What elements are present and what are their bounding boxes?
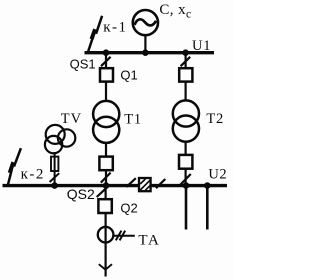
node: U1 right junction bbox=[182, 49, 189, 56]
transformer T2 bbox=[173, 100, 199, 126]
outgoing arrow at bottom of TA feeder bbox=[99, 264, 112, 269]
current transformer TA circle bbox=[98, 227, 114, 243]
wire T2 to LV breaker bbox=[185, 142, 187, 155]
svg-text:U2: U2 bbox=[208, 167, 227, 183]
wire breaker to T2 bbox=[185, 82, 187, 101]
disconnector QS1 slash bbox=[101, 57, 111, 66]
wire U1 to right breaker bbox=[185, 53, 187, 69]
svg-text:T1: T1 bbox=[124, 111, 142, 127]
short-circuit bolt k-1 bbox=[88, 16, 102, 52]
wire U1 to Q1 bbox=[105, 53, 107, 69]
node: U2 right junction 1 bbox=[183, 182, 190, 189]
wire LV breaker to bus U2 bbox=[105, 170, 107, 185]
svg-text:C, xc: C, xc bbox=[159, 2, 191, 20]
transformer T1 bbox=[93, 101, 119, 127]
disconnector slash below U1 right bbox=[181, 57, 191, 66]
svg-text:Q1: Q1 bbox=[120, 68, 137, 83]
bus tie: right slash bbox=[156, 179, 165, 188]
TA double slash bbox=[116, 231, 122, 241]
disconnector slash above U2 right bbox=[180, 174, 190, 185]
source C (AC generator) bbox=[133, 10, 158, 35]
feeder stub 1 bbox=[185, 186, 188, 230]
fuse FU bbox=[51, 157, 58, 171]
node: U1 left junction bbox=[103, 49, 110, 56]
wire T2 LV to bus U2 bbox=[185, 169, 187, 186]
svg-text:к-1: к-1 bbox=[103, 19, 127, 35]
svg-text:TV: TV bbox=[61, 111, 82, 127]
voltage transformer TV (three circles) bbox=[46, 125, 65, 144]
wire source to bus U1 bbox=[144, 35, 146, 53]
breaker T2 LV bbox=[179, 155, 192, 169]
node: U2 TV junction bbox=[51, 182, 58, 189]
sine wave inside source bbox=[135, 19, 157, 25]
node: U1 source junction bbox=[142, 49, 149, 56]
wire Q2 to TA and through bbox=[104, 213, 106, 277]
feeder stub 2 bbox=[206, 186, 209, 230]
short-circuit bolt k-2 bbox=[8, 148, 21, 184]
node: U2 right junction 2 bbox=[204, 182, 211, 189]
svg-text:TA: TA bbox=[138, 232, 160, 248]
disconnector slash TV branch bbox=[50, 173, 60, 182]
svg-text:Q2: Q2 bbox=[120, 200, 137, 215]
breaker Q1 bbox=[100, 68, 113, 81]
wire U2 to Q2 bbox=[104, 186, 106, 200]
svg-text:U1: U1 bbox=[192, 38, 211, 54]
svg-text:T2: T2 bbox=[206, 111, 224, 127]
breaker T1 LV bbox=[99, 157, 112, 171]
svg-text:к-2: к-2 bbox=[21, 167, 45, 183]
disconnector slash above U2 left bbox=[101, 173, 111, 183]
wire T1 to LV breaker bbox=[105, 143, 107, 157]
wire TV to bus U2 bbox=[54, 152, 56, 185]
wire Q1 to T1 bbox=[105, 82, 107, 102]
svg-text:QS1: QS1 bbox=[70, 56, 96, 71]
svg-text:QS2: QS2 bbox=[67, 186, 95, 202]
bus tie: left slash bbox=[126, 178, 135, 187]
bus tie: hatched breaker box bbox=[139, 178, 151, 191]
bus U1 bbox=[85, 51, 215, 54]
breaker Q2 bbox=[98, 199, 111, 213]
bus U2 bbox=[3, 184, 228, 187]
node: U2 left junction bbox=[103, 182, 110, 189]
TA secondary stub bbox=[113, 235, 135, 237]
disconnector QS2 slash bbox=[97, 187, 108, 197]
breaker right top bbox=[179, 68, 192, 81]
